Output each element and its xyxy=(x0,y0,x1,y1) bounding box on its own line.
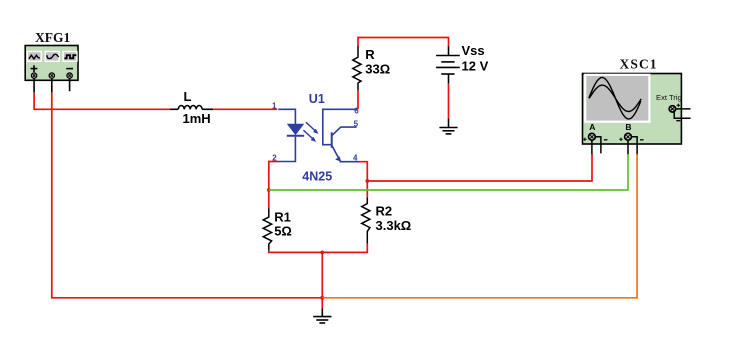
terminal A minus mark xyxy=(604,139,608,141)
XFG1 terminal stub + xyxy=(33,78,35,92)
svg-text:XSC1: XSC1 xyxy=(620,57,658,72)
svg-text:12 V: 12 V xyxy=(462,58,489,73)
wire U1 pin6 up to resistor R xyxy=(357,90,359,109)
junction node ground rail xyxy=(320,296,324,300)
wire ground node to ground symbol xyxy=(321,298,323,308)
XFG1 terminal stub common xyxy=(51,78,53,92)
svg-text:A: A xyxy=(589,122,595,132)
LED cathode bar xyxy=(287,135,304,137)
function generator XFG1 xyxy=(25,30,78,93)
wire ground node to oscilloscope B- (orange) xyxy=(322,154,637,298)
terminal B plus mark xyxy=(619,138,622,141)
ext trig plus mark xyxy=(677,104,680,107)
optocoupler U1 4N25 xyxy=(277,109,360,161)
wire R top to Vss xyxy=(358,38,449,47)
pin 2 lead xyxy=(277,137,295,162)
wire U1 pin4 to R2 and node xyxy=(360,162,368,198)
ext trig leads xyxy=(674,109,690,118)
junction node pin4/scope-A xyxy=(365,179,369,183)
XFG1 triangle-wave button xyxy=(28,52,42,62)
pin 6 lead and base wire xyxy=(323,109,358,144)
phototransistor base bar xyxy=(331,132,333,148)
resistor R1 xyxy=(263,209,292,251)
svg-text:B: B xyxy=(625,122,631,132)
wire Vss to ground xyxy=(448,84,450,119)
resistor R2 xyxy=(362,197,412,243)
svg-text:5: 5 xyxy=(354,119,359,128)
pin 1 lead xyxy=(278,109,295,124)
wire R1 bottom to center node xyxy=(269,251,323,253)
XFG1 body xyxy=(25,46,78,81)
terminal A bracket lead xyxy=(595,137,601,154)
svg-text:Ext Trig: Ext Trig xyxy=(656,93,682,102)
plate short 1 xyxy=(441,61,454,63)
XFG1 square-wave button xyxy=(63,52,77,62)
XSC1 screen xyxy=(585,75,649,122)
XFG1 minus mark xyxy=(66,68,73,70)
ground center xyxy=(313,308,331,323)
ext trig minus mark xyxy=(676,120,680,122)
wire node to oscilloscope channel A xyxy=(367,154,592,181)
wire inductor to U1 pin 1 xyxy=(213,108,277,110)
plate long 2 xyxy=(436,66,460,68)
svg-text:R1: R1 xyxy=(274,210,291,225)
svg-text:4N25: 4N25 xyxy=(302,170,332,184)
screen trace large sine xyxy=(589,78,641,120)
wire U1 pin2 down to R1 xyxy=(269,162,278,209)
battery Vss xyxy=(436,46,460,83)
LED anode triangle xyxy=(288,124,303,134)
resistor R xyxy=(353,46,390,91)
screen trace small sine xyxy=(589,85,641,111)
wire node down to ground rail xyxy=(321,252,323,297)
ext trig terminal xyxy=(669,106,675,112)
inductor L xyxy=(170,89,213,126)
emitter to pin 4 xyxy=(332,145,340,160)
svg-text:L: L xyxy=(184,89,192,104)
wire XFG1 common down to bottom ground rail xyxy=(52,93,323,298)
wire R2 bottom to center node xyxy=(322,244,367,253)
XSC1 body xyxy=(583,74,682,145)
svg-text:3.3kΩ: 3.3kΩ xyxy=(376,218,412,233)
wire XFG1 + to inductor L xyxy=(34,93,170,110)
svg-text:XFG1: XFG1 xyxy=(35,30,70,45)
junction node R1/R2 xyxy=(320,251,324,255)
svg-text:33Ω: 33Ω xyxy=(365,62,390,77)
collector to pin 5 xyxy=(332,127,357,136)
terminal B minus mark xyxy=(640,139,644,141)
svg-text:R2: R2 xyxy=(376,204,393,219)
terminal A plus stub xyxy=(591,140,593,154)
svg-text:Vss: Vss xyxy=(462,43,485,58)
XFG1 plus mark xyxy=(31,65,38,72)
light arrow 2 xyxy=(303,130,314,140)
terminal B xyxy=(625,133,632,140)
terminal B bracket lead xyxy=(631,137,637,154)
XFG1 terminal - xyxy=(67,73,72,78)
svg-text:1mH: 1mH xyxy=(183,111,211,126)
plate long 1 xyxy=(436,55,460,57)
terminal B plus stub xyxy=(627,140,629,154)
svg-text:1: 1 xyxy=(272,101,277,110)
XFG1 terminal common xyxy=(49,73,54,78)
svg-text:R: R xyxy=(365,47,375,62)
svg-text:4: 4 xyxy=(353,154,358,163)
svg-text:5Ω: 5Ω xyxy=(274,224,292,239)
plate short 2 xyxy=(441,73,454,75)
wire node to oscilloscope channel B (green) xyxy=(269,154,628,190)
XFG1 terminal stub - xyxy=(69,78,71,91)
terminal A xyxy=(589,133,596,140)
oscilloscope XSC1 xyxy=(583,57,691,155)
XFG1 terminal + xyxy=(31,73,36,78)
terminal A plus mark xyxy=(583,138,586,141)
ground below Vss xyxy=(439,118,457,133)
XFG1 sine-wave button xyxy=(45,52,59,62)
light arrow 1 xyxy=(306,122,317,132)
svg-text:U1: U1 xyxy=(309,92,325,106)
junction node pin2/scope-B xyxy=(267,188,271,192)
